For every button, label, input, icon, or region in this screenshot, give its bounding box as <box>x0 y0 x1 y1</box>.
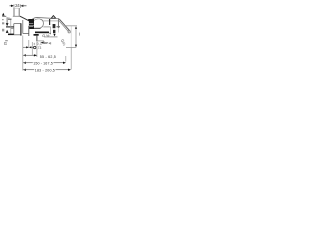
small arrow tail <box>44 42 48 44</box>
svg-text:183 - 200,5: 183 - 200,5 <box>35 68 55 72</box>
wall top dark dash <box>8 18 12 21</box>
left down arrow line <box>6 17 8 23</box>
extension line x36.8 <box>36 41 38 57</box>
outlet front vertical <box>36 36 38 41</box>
knob end vertical <box>57 18 59 28</box>
wall pipe lower wall <box>11 27 14 29</box>
right section top line <box>43 20 58 22</box>
extension line x71 upper faint <box>70 26 72 48</box>
lever diagonal lower <box>59 20 69 32</box>
dim row1 right arrow <box>26 46 28 48</box>
dim row4 line left <box>23 69 34 71</box>
dim row4 line right <box>56 69 69 71</box>
body step horizontal <box>23 33 29 35</box>
extension line x22.5 <box>22 36 24 71</box>
G glyph top dash <box>5 39 8 42</box>
svg-text:24: 24 <box>15 3 20 8</box>
wall pipe upper wall <box>6 26 14 28</box>
svg-text:G½: G½ <box>42 34 49 38</box>
outlet bottom horizontal <box>37 40 44 42</box>
dome arc outer <box>32 17 51 19</box>
body dark column <box>29 19 34 29</box>
svg-text:G: G <box>4 41 7 46</box>
outlet band dark <box>35 32 49 34</box>
body step vertical <box>28 26 30 36</box>
right dim vertical <box>75 29 77 45</box>
small dim extension tick <box>43 41 45 44</box>
dome arc inner <box>34 19 41 21</box>
dim row4 left arrow <box>23 69 26 71</box>
dimension 24: right arrow tail <box>21 5 27 7</box>
body bottom edge <box>34 27 41 29</box>
svg-text:,73: ,73 <box>37 46 42 50</box>
dim row1 line mid <box>31 46 34 48</box>
small arrow blob <box>40 42 43 44</box>
right dim down arrow <box>75 45 77 48</box>
escutcheon rect left edge <box>13 24 15 35</box>
dim 24 extension right <box>19 4 21 8</box>
wall vertical <box>10 20 12 34</box>
right dim leader bottom <box>66 47 76 49</box>
knob dark band upper <box>53 24 56 28</box>
body rear vertical <box>22 20 24 34</box>
dim row1 ring <box>34 46 36 48</box>
row1 text dash <box>44 42 47 45</box>
dim row1 line left <box>23 46 29 48</box>
body column slit 2 <box>29 25 33 28</box>
extension line x66 <box>65 56 67 62</box>
dark bar top of body <box>28 19 33 21</box>
outlet leader line <box>44 36 58 38</box>
handle rect (top view) right edge <box>18 8 20 16</box>
dim row3 right arrow <box>63 62 66 64</box>
dim 24 extension left <box>13 4 15 8</box>
handle rect (top view) left edge <box>13 8 15 16</box>
wall line top view <box>2 15 6 17</box>
dim row2 right arrow <box>34 54 37 56</box>
dim row1 left arrow next <box>29 46 31 48</box>
row1 text dot <box>49 43 50 44</box>
background <box>0 0 80 80</box>
dim row2 left arrow <box>23 54 26 56</box>
wall line right segment <box>13 15 20 17</box>
right dim leader top <box>66 25 77 27</box>
left up arrow <box>6 30 9 33</box>
left down arrow <box>6 23 9 26</box>
lever knob tip <box>68 31 70 33</box>
escutcheon rect bottom edge <box>14 34 21 36</box>
diagonal from handle to body <box>20 16 29 20</box>
extension line x71 <box>70 48 72 70</box>
dimension 24: right-pointing arrowhead <box>11 5 14 7</box>
left tiny text 1 <box>2 19 4 20</box>
svg-text:150 - 167,5: 150 - 167,5 <box>33 61 53 65</box>
knob end vertical faint lower <box>57 28 59 33</box>
escutcheon front dark edge <box>20 23 21 35</box>
left tiny text 2 <box>2 22 4 24</box>
right section inner vertical <box>50 27 52 33</box>
dim row3 line right <box>54 62 64 64</box>
svg-text:42: 42 <box>78 32 80 36</box>
body column slit 1 <box>29 22 33 24</box>
down arrow to outlet line <box>53 34 55 37</box>
left tiny text 3 <box>2 29 4 32</box>
body column gray row <box>29 24 34 27</box>
tiny tick <box>49 42 52 44</box>
tiny mark <box>8 17 9 18</box>
dimension 24: left-pointing arrowhead <box>20 5 23 7</box>
knob bottom dark segment <box>57 26 61 28</box>
right section vertical dark <box>49 19 50 25</box>
lever diagonal upper <box>59 19 70 32</box>
outlet bar 2 dark <box>34 34 39 36</box>
extension line x28.5 <box>28 40 30 48</box>
dim row3 left arrow <box>23 62 26 64</box>
up arrow at wall line <box>2 13 5 16</box>
right dim up arrow <box>75 26 77 29</box>
svg-text:55 - 62,5: 55 - 62,5 <box>40 55 56 59</box>
svg-text:± 0,1: ± 0,1 <box>33 42 42 46</box>
dim row3 line left <box>23 62 33 64</box>
dim row2 line <box>23 54 37 56</box>
wall pipe 2 dark <box>8 34 14 36</box>
handle rect top edge <box>14 7 19 9</box>
outlet band step <box>49 33 51 34</box>
dimension 24: left arrow tail <box>10 5 14 7</box>
escutcheon rect top edge <box>14 23 21 25</box>
right section bottom line <box>43 26 50 28</box>
knob dark band lower <box>53 30 55 33</box>
top line right of pyramid <box>56 17 59 19</box>
front cap arc <box>40 19 43 27</box>
pyramid stop button <box>51 16 55 19</box>
dim row4 right arrow <box>68 69 71 71</box>
extension line x32.5 <box>31 42 33 56</box>
